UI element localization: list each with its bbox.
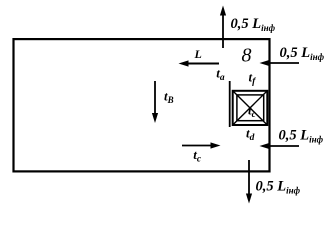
cooler unit diagonal 2 [233, 91, 267, 124]
right-top infiltration arrow [266, 62, 299, 64]
cooler duct line [229, 81, 231, 127]
svg-text:8: 8 [242, 45, 252, 67]
room outline [14, 39, 270, 171]
top exfiltration arrow [222, 14, 224, 48]
recirculation arrow t_c [182, 145, 214, 147]
right-bottom infiltration arrow [266, 145, 299, 147]
cooler unit diagonal 1 [233, 91, 267, 124]
svg-text:L: L [194, 47, 202, 61]
cooler unit U1 outer box [233, 91, 268, 125]
supply air arrow L [186, 63, 219, 65]
indoor air arrow t_B [154, 81, 156, 116]
bottom exfiltration arrow [248, 160, 250, 195]
cooler unit U1 inner box [237, 95, 264, 121]
